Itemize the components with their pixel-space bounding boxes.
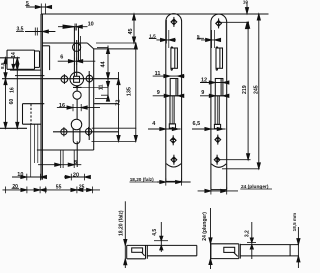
svg-text:60: 60	[9, 99, 15, 105]
svg-text:8: 8	[74, 160, 77, 166]
svg-text:72: 72	[116, 100, 122, 106]
svg-text:16: 16	[59, 103, 65, 109]
svg-text:14: 14	[11, 52, 17, 58]
svg-text:20: 20	[73, 172, 79, 178]
svg-text:9: 9	[157, 90, 160, 96]
svg-text:135: 135	[127, 87, 133, 96]
svg-text:11: 11	[155, 71, 161, 77]
svg-text:9: 9	[201, 90, 204, 96]
svg-text:44: 44	[101, 60, 107, 67]
svg-text:3,2: 3,2	[245, 230, 251, 237]
svg-text:20: 20	[12, 184, 18, 190]
svg-text:18,5 mm: 18,5 mm	[292, 213, 297, 231]
svg-text:10: 10	[243, 0, 249, 4]
svg-text:25: 25	[79, 184, 85, 190]
svg-text:4,5: 4,5	[152, 229, 158, 236]
svg-text:1,5: 1,5	[149, 34, 156, 39]
svg-text:18,20 (falz): 18,20 (falz)	[119, 210, 125, 236]
svg-text:6,5: 6,5	[193, 121, 201, 127]
svg-text:10: 10	[88, 22, 94, 28]
svg-text:24 (plunger): 24 (plunger)	[202, 212, 208, 241]
svg-text:55: 55	[56, 184, 62, 190]
svg-text:16: 16	[10, 87, 16, 93]
svg-text:8,5: 8,5	[0, 62, 5, 69]
svg-text:6: 6	[60, 54, 63, 60]
svg-text:45: 45	[128, 28, 134, 34]
svg-text:245: 245	[254, 85, 260, 94]
svg-text:12: 12	[201, 77, 207, 83]
svg-text:5: 5	[197, 34, 200, 39]
svg-text:18,20 (falz): 18,20 (falz)	[130, 177, 154, 182]
svg-text:11: 11	[99, 84, 105, 90]
svg-text:219: 219	[242, 85, 248, 94]
svg-text:10: 10	[17, 172, 23, 178]
